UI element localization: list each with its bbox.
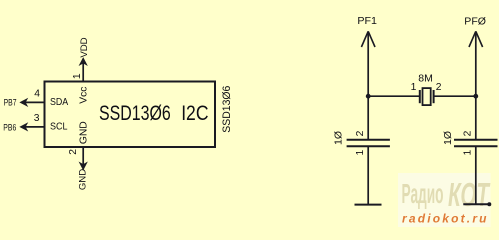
svg-text:SSD13Ø6: SSD13Ø6 — [221, 86, 233, 133]
svg-text:1: 1 — [463, 149, 474, 155]
svg-text:2: 2 — [68, 149, 79, 155]
svg-text:SSD13Ø6: SSD13Ø6 — [99, 101, 171, 125]
svg-text:radiokot.ru: radiokot.ru — [402, 212, 487, 226]
svg-text:PB6: PB6 — [3, 122, 16, 133]
svg-text:1: 1 — [355, 149, 366, 155]
svg-text:КОТ: КОТ — [448, 176, 491, 213]
svg-text:1Ø: 1Ø — [442, 131, 454, 145]
svg-text:SDA: SDA — [50, 97, 68, 108]
svg-text:2: 2 — [436, 82, 442, 93]
svg-text:Радио: Радио — [402, 178, 444, 209]
svg-text:GND: GND — [79, 121, 90, 144]
svg-text:1: 1 — [411, 82, 417, 93]
svg-text:PF1: PF1 — [357, 15, 377, 27]
svg-text:1Ø: 1Ø — [332, 131, 344, 145]
svg-text:3: 3 — [34, 113, 40, 124]
svg-text:1: 1 — [72, 73, 83, 79]
svg-text:2: 2 — [355, 130, 366, 136]
svg-text:PFØ: PFØ — [464, 16, 486, 28]
svg-text:8M: 8M — [418, 73, 433, 85]
svg-text:SCL: SCL — [50, 121, 68, 132]
svg-text:Vcc: Vcc — [79, 87, 90, 104]
svg-text:VDD: VDD — [79, 37, 90, 57]
svg-text:I2C: I2C — [181, 101, 208, 125]
svg-text:GND: GND — [78, 169, 89, 190]
svg-text:PB7: PB7 — [4, 98, 17, 109]
svg-text:2: 2 — [463, 130, 474, 136]
svg-text:4: 4 — [34, 89, 40, 100]
